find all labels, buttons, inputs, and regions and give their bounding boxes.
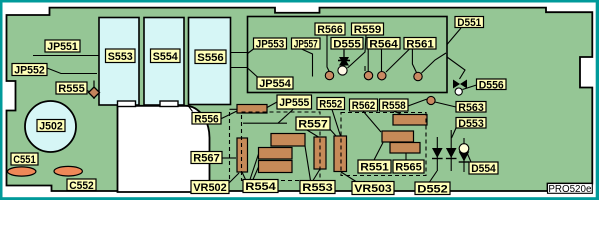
svg-text:R567: R567 bbox=[193, 153, 220, 165]
svg-text:R563: R563 bbox=[458, 102, 484, 114]
svg-text:JP553: JP553 bbox=[256, 39, 285, 51]
svg-text:D551: D551 bbox=[457, 17, 481, 29]
svg-text:R559: R559 bbox=[354, 24, 382, 36]
svg-text:R553: R553 bbox=[302, 182, 333, 194]
svg-text:VR502: VR502 bbox=[193, 182, 227, 194]
svg-text:S553: S553 bbox=[108, 51, 133, 63]
svg-text:J502: J502 bbox=[39, 121, 63, 133]
svg-text:R564: R564 bbox=[369, 38, 398, 50]
svg-text:JP551: JP551 bbox=[47, 41, 78, 53]
svg-text:R561: R561 bbox=[406, 38, 434, 50]
svg-text:R555: R555 bbox=[58, 83, 85, 95]
svg-text:VR503: VR503 bbox=[354, 183, 392, 195]
svg-text:D552: D552 bbox=[417, 183, 448, 195]
svg-text:JP555: JP555 bbox=[279, 97, 309, 109]
svg-text:R557: R557 bbox=[298, 119, 328, 131]
svg-text:JP557: JP557 bbox=[294, 39, 318, 51]
svg-text:R565: R565 bbox=[395, 162, 422, 174]
svg-text:R554: R554 bbox=[245, 181, 277, 193]
svg-text:S554: S554 bbox=[153, 51, 179, 63]
svg-text:D554: D554 bbox=[471, 163, 496, 175]
svg-text:JP552: JP552 bbox=[14, 65, 45, 77]
svg-text:R552: R552 bbox=[319, 99, 342, 111]
svg-text:R551: R551 bbox=[360, 162, 389, 174]
svg-text:C552: C552 bbox=[69, 180, 94, 192]
svg-text:R566: R566 bbox=[317, 24, 343, 36]
svg-text:C551: C551 bbox=[13, 154, 36, 166]
svg-text:D553: D553 bbox=[458, 118, 484, 130]
svg-text:R562: R562 bbox=[352, 100, 376, 112]
svg-text:S556: S556 bbox=[197, 52, 224, 64]
svg-text:JP554: JP554 bbox=[259, 78, 291, 90]
svg-text:R556: R556 bbox=[194, 113, 219, 125]
svg-text:PRO520e: PRO520e bbox=[548, 184, 592, 195]
svg-text:D555: D555 bbox=[333, 38, 361, 50]
svg-text:D556: D556 bbox=[479, 79, 504, 91]
svg-text:R558: R558 bbox=[382, 100, 406, 112]
